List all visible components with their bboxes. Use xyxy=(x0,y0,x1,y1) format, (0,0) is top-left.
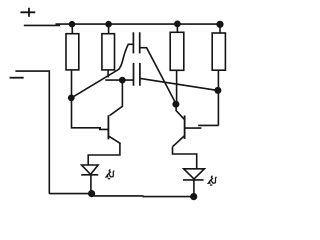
wire C2 right lead to node D xyxy=(140,78,218,90)
wire C1 right lead to node B xyxy=(140,48,176,104)
resistor R4 xyxy=(212,24,225,70)
wire bottom rail right xyxy=(91,195,194,198)
transistor Q2 base bar xyxy=(184,116,186,139)
wire LED1 to rail xyxy=(90,175,92,193)
transistor Q2 collector xyxy=(176,104,184,119)
node rail-R2 xyxy=(105,21,112,28)
wire LED2 to rail xyxy=(193,180,195,197)
LED D1 light arrows xyxy=(105,169,115,178)
wire C2 left lead xyxy=(105,79,133,81)
resistor R3 xyxy=(170,24,184,70)
resistor R2 xyxy=(102,24,115,77)
node LED1-rail xyxy=(88,190,95,197)
node A xyxy=(68,95,75,102)
node D xyxy=(214,87,221,94)
wire C1 left lead to node A xyxy=(72,44,134,98)
wire R4 to Q2 base xyxy=(217,70,219,125)
wire Q2 emitter to LED2 xyxy=(173,147,197,169)
transistor Q1 emitter xyxy=(108,136,121,144)
wire plus lead xyxy=(24,24,60,26)
plus terminal xyxy=(20,8,35,17)
wire node A to Q1 base xyxy=(72,98,109,129)
wire R3 down xyxy=(176,70,178,103)
resistor R1 xyxy=(66,24,79,70)
LED D1 xyxy=(81,165,98,175)
node rail-R3 xyxy=(174,21,181,28)
node LED2-rail xyxy=(190,193,197,200)
LED D2 light arrows xyxy=(207,176,217,185)
minus terminal xyxy=(10,77,24,79)
transistor Q2 emitter xyxy=(172,136,184,147)
LED D2 xyxy=(183,169,205,180)
capacitor C2 xyxy=(134,63,140,86)
wire top rail xyxy=(56,23,224,25)
transistor Q2 base lead xyxy=(185,125,219,128)
node rail-R1 xyxy=(69,21,76,28)
transistor Q1 base bar xyxy=(107,115,109,139)
node rail-R4 xyxy=(216,21,223,28)
wire minus lead xyxy=(15,71,49,194)
transistor Q1 collector xyxy=(110,80,123,116)
node C xyxy=(119,77,126,84)
wire R1 down xyxy=(71,70,73,98)
wire bottom rail left xyxy=(49,193,92,195)
capacitor C1 xyxy=(133,32,139,53)
node B xyxy=(172,101,179,108)
wire Q1 emitter to LED1 xyxy=(88,143,120,165)
